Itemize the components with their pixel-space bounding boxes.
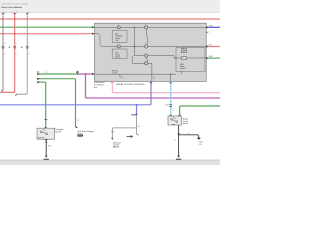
svg-text:2: 2 [11, 12, 12, 14]
junction dot internal 2 [134, 46, 135, 47]
svg-text:3: 3 [16, 11, 17, 13]
internal magenta row [95, 71, 182, 74]
blue pin wire down-left [0, 81, 151, 104]
tick on green C [44, 120, 48, 122]
wire black B to ground [174, 125, 180, 156]
relay box B [112, 49, 127, 59]
arrow to wire end [127, 135, 133, 137]
svg-text:Control: Control [112, 72, 118, 75]
svg-text:DEF SW: DEF SW [38, 137, 45, 139]
internal vertical A [134, 27, 144, 55]
inline connector wire 3 [21, 43, 29, 55]
sub box 4WD [176, 47, 205, 72]
black branch to ground point [179, 133, 201, 139]
contact arm 2 [146, 58, 147, 62]
svg-text:Control: Control [180, 67, 186, 70]
blue branch down [136, 105, 138, 115]
green wire A [37, 72, 78, 75]
svg-text:(18): (18) [198, 144, 202, 146]
connector green to magenta [76, 71, 79, 75]
tick top wire 2 [11, 11, 17, 13]
wire green exit [206, 56, 220, 59]
terminal circles [117, 26, 147, 65]
svg-text:C416: C416 [119, 77, 123, 79]
wire red vertical 2 [0, 13, 15, 92]
svg-text:4: 4 [145, 43, 146, 45]
pink pin wire [111, 81, 220, 92]
internal red row [95, 34, 207, 47]
svg-text:Relay: Relay [115, 57, 119, 59]
title bar [0, 0, 220, 12]
destination text green B [78, 130, 95, 137]
ground A [44, 156, 49, 160]
stub exit [206, 32, 210, 34]
junction dot red feed 2 [14, 33, 16, 35]
destination text gray wire [113, 142, 121, 148]
inline connector wire 1 [2, 43, 6, 55]
pin chevron under B [172, 124, 174, 125]
svg-text:2: 2 [28, 53, 29, 55]
component B box [168, 115, 182, 125]
svg-text:4: 4 [29, 11, 30, 13]
svg-text:4: 4 [47, 120, 48, 122]
svg-text:2: 2 [165, 78, 166, 80]
bottom page strip [0, 160, 220, 165]
svg-text:(RELAY CONTROL MODULE): (RELAY CONTROL MODULE) [116, 83, 144, 86]
tick on gray branch [111, 132, 115, 134]
wire magenta down and right [86, 74, 221, 98]
svg-text:7: 7 [28, 43, 29, 45]
title bar bottom border [0, 11, 220, 13]
svg-text:2: 2 [172, 110, 173, 112]
tick top wire 3 [26, 11, 30, 13]
junction dot internal cyan [170, 74, 171, 75]
end curl green B [76, 126, 78, 127]
svg-text:1: 1 [4, 11, 5, 13]
label component A [55, 128, 63, 133]
svg-text:1: 1 [114, 132, 115, 134]
arrow magenta into module [92, 73, 95, 75]
label component B [183, 119, 189, 125]
junction dot internal 3 [175, 57, 176, 58]
svg-text:9: 9 [16, 43, 17, 45]
svg-text:Switch: Switch [55, 130, 61, 133]
connector bar blue branch [131, 114, 137, 115]
svg-text:16: 16 [153, 78, 155, 80]
svg-text:18: 18 [77, 120, 79, 122]
svg-text:4: 4 [4, 53, 5, 55]
internal blue riser link [148, 63, 152, 81]
circle pin labels [118, 24, 146, 45]
junction dot black branch [178, 134, 180, 136]
arrow red into module [92, 33, 95, 35]
arrowhead left gray branch [111, 138, 113, 140]
wire green feed [0, 26, 95, 28]
page background [0, 0, 220, 165]
green wire right edge to relay [180, 106, 220, 115]
cyan pin wire down [165, 81, 173, 115]
internal row 2 right [148, 56, 182, 58]
gray continuation of blue branch [112, 115, 138, 138]
wire blue exit [206, 25, 220, 28]
svg-text:C416: C416 [165, 105, 169, 107]
junction dot magenta [85, 73, 87, 75]
green wire C [37, 81, 46, 128]
tick top wire 1 [2, 11, 6, 13]
component A box [37, 127, 55, 139]
pin labels module bottom [119, 75, 166, 80]
diode [181, 49, 186, 53]
internal text near magenta row [112, 71, 118, 75]
module: under-hood fuse/relay box [95, 23, 207, 81]
wire black A to ground [45, 139, 52, 155]
internal row 1 [95, 26, 207, 28]
svg-text:131-6: 131-6 [78, 135, 82, 137]
wire gray vertical 1 [2, 13, 4, 90]
inline connector wire 2 [9, 43, 17, 55]
junction dot red bus [14, 18, 16, 20]
svg-text:1: 1 [118, 43, 119, 45]
svg-text:2: 2 [118, 24, 119, 26]
arrow green into module [92, 26, 95, 28]
end curl wire 3 [15, 94, 17, 95]
wire red feed 2 [0, 33, 95, 35]
green wire B [37, 78, 76, 127]
junction dot blue [136, 104, 138, 106]
wire magenta into module [78, 73, 95, 75]
svg-text:Board: Board [183, 122, 188, 125]
svg-text:1: 1 [209, 32, 210, 34]
svg-text:30: 30 [138, 126, 140, 128]
ground point label [198, 142, 204, 146]
svg-text:Box: Box [94, 87, 97, 89]
module internal wires [95, 27, 207, 81]
svg-text:22: 22 [46, 72, 48, 74]
internal circle3 link [132, 56, 144, 64]
internal cyan stub [170, 74, 172, 81]
ground B [176, 156, 181, 160]
svg-text:2007 Honda CR-V L4-2.4L : Defo: 2007 Honda CR-V L4-2.4L : Defogger [2, 3, 29, 5]
svg-text:WHT: WHT [209, 25, 213, 27]
module name label [94, 81, 104, 89]
svg-text:Relay Control Module: Relay Control Module [2, 6, 23, 9]
resistor [181, 57, 186, 60]
junction dot internal 1 [134, 27, 135, 28]
contact arm 1 [146, 29, 147, 44]
svg-text:3: 3 [145, 24, 146, 26]
svg-text:131-11: 131-11 [113, 146, 119, 148]
end curl wire 1 [1, 90, 3, 91]
svg-text:6: 6 [16, 53, 17, 55]
relay box A [112, 30, 127, 42]
wire red bus top [0, 18, 220, 20]
pin chevron blue [150, 82, 152, 83]
wire gray vertical 3 [16, 13, 27, 94]
svg-text:12: 12 [4, 43, 6, 45]
internal resistor feed [187, 57, 207, 59]
wire red exit [206, 45, 220, 48]
